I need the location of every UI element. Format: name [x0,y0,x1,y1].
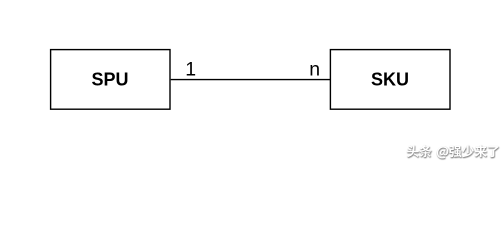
wire: relation line from SPU right edge to SKU left edge [171,79,331,81]
svg-text:n: n [309,59,320,81]
svg-text:SKU: SKU [371,69,409,89]
svg-text:1: 1 [185,59,196,81]
watermark 头条 @强少来了 (white text with gray shadow) [407,145,499,159]
svg-text:SPU: SPU [91,69,128,89]
entity box SPU [51,50,170,110]
entity box SKU [330,50,450,110]
